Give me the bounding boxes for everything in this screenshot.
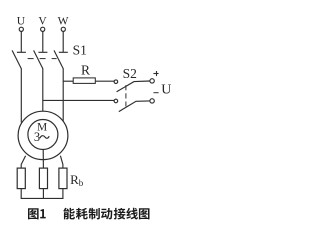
- terminal circle U: [19, 27, 23, 31]
- motor M inner circle: [28, 120, 58, 150]
- terminal circle V: [41, 27, 45, 31]
- plus sign of DC supply: [153, 71, 158, 76]
- wire W phase down to motor: [62, 68, 64, 121]
- star-point bus wire: [21, 197, 64, 199]
- switch S2 top pole blade: [117, 81, 150, 92]
- switch S1 pole 1 fixed contact bar: [17, 51, 26, 53]
- wire middle resistor to star bus: [42, 189, 44, 199]
- motor lead right to braking resistor: [60, 156, 63, 169]
- svg-text:U: U: [161, 83, 171, 98]
- switch S2 bottom pole left contact: [114, 99, 118, 103]
- S2 mechanical coupling dashed link: [125, 85, 127, 106]
- wire right resistor to star bus: [62, 189, 64, 199]
- wire W phase branch to resistor R: [63, 80, 73, 82]
- wire U terminal to S1: [20, 32, 22, 52]
- motor lead middle to braking resistor: [42, 150, 44, 168]
- switch S1 pole 2 fixed contact bar: [38, 51, 47, 53]
- svg-text:S1: S1: [73, 43, 87, 58]
- svg-text:W: W: [58, 16, 69, 28]
- wire V phase branch to switch S2 bottom pole: [43, 99, 114, 101]
- terminal circle W: [61, 27, 65, 31]
- switch S2 top pole left contact: [114, 80, 118, 84]
- resistor R body: [73, 78, 95, 84]
- svg-text:U: U: [17, 16, 26, 28]
- switch S1 pole 3 blade: [54, 50, 63, 68]
- S1 mechanical coupling dashed link: [28, 58, 57, 60]
- wire left resistor to star bus: [20, 189, 22, 199]
- braking resistor Rb left body: [17, 168, 25, 189]
- switch S1 pole 1 blade: [12, 50, 21, 68]
- braking resistor Rb right body: [59, 168, 67, 189]
- wire W terminal to S1: [62, 32, 64, 52]
- switch S1 pole 2 blade: [34, 50, 43, 68]
- svg-text:Rb: Rb: [70, 172, 84, 188]
- minus sign of DC supply: [154, 92, 159, 94]
- svg-text:R: R: [81, 63, 90, 78]
- switch S1 pole 3 fixed contact bar: [59, 51, 68, 53]
- switch S2 top pole right contact: [150, 79, 154, 83]
- motor M outer circle: [18, 111, 68, 159]
- svg-text:3: 3: [34, 130, 40, 144]
- caption 图1 能耗制动接线图: [28, 208, 149, 220]
- switch S2 bottom pole right contact: [150, 99, 154, 103]
- wire V terminal to S1: [42, 32, 44, 52]
- braking resistor Rb middle body: [39, 168, 47, 189]
- svg-text:S2: S2: [123, 66, 137, 81]
- wire resistor R to switch S2 top pole: [95, 80, 114, 82]
- svg-text:V: V: [38, 16, 47, 28]
- motor lead left to braking resistor: [21, 156, 25, 169]
- wire U phase down to motor: [20, 68, 22, 122]
- switch S2 bottom pole blade: [119, 101, 150, 112]
- wire V phase down to motor: [42, 68, 44, 111]
